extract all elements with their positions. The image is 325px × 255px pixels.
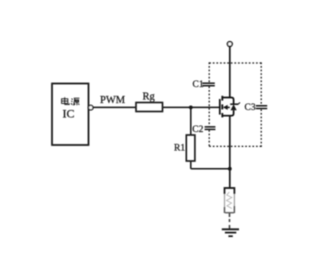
svg-text:C2: C2 xyxy=(192,125,203,135)
svg-text:IC: IC xyxy=(63,107,75,121)
svg-text:PWM: PWM xyxy=(100,95,126,106)
svg-text:C3: C3 xyxy=(245,103,256,113)
svg-text:R1: R1 xyxy=(174,144,185,154)
svg-text:C1: C1 xyxy=(193,80,204,90)
svg-text:Rg: Rg xyxy=(143,92,156,103)
